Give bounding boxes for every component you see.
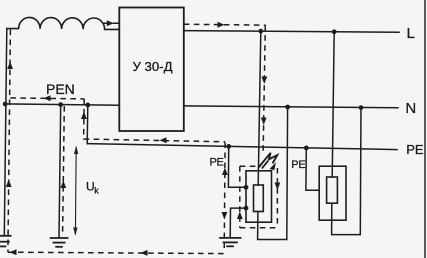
svg-text:L: L [407, 25, 415, 42]
svg-text:PE: PE [291, 159, 305, 171]
wire: PEN conductor from transformer to box [4, 104, 119, 105]
arrow up on left earth conductor (lower) [6, 180, 12, 188]
node: N drop to right appliance [359, 105, 364, 110]
wire (dashed): loop around faulted case bottom [240, 227, 278, 229]
wire (dashed): up from PE corner [83, 99, 86, 140]
resistor R2 (right appliance load) [327, 177, 338, 203]
svg-text:PE: PE [406, 142, 424, 157]
wire: PE bonding stub of right appliance [306, 148, 319, 190]
node: PEN at left earthing conductor [3, 102, 8, 107]
scan page edge artifact [424, 0, 426, 258]
arrow left on PE dashed [160, 137, 167, 143]
node: L drop to middle appliance [258, 29, 263, 34]
wire: local earthing conductor of middle appliance [230, 208, 246, 237]
ground (repeated earth electrode) [51, 238, 68, 247]
node: L drop to right appliance [332, 29, 337, 34]
node: local earth bond on case [244, 206, 249, 211]
wire: L drop to right appliance resistor [332, 32, 334, 177]
appliance case (middle, faulted) [246, 171, 272, 222]
ground (transformer neutral earth electrode) [0, 236, 11, 247]
wire (dashed): loop around faulted case top [240, 165, 257, 167]
wire (dashed): loop around faulted case left [239, 166, 241, 228]
arrow down on L drop dashed (lower) [261, 118, 267, 126]
node: PEN split to PE [85, 103, 90, 108]
svg-text:PEN: PEN [46, 81, 75, 97]
wire (dashed): earth return bottom [8, 252, 227, 253]
resistor R1 (middle appliance load) [254, 185, 264, 212]
wire (dashed): along PE back to split [84, 139, 226, 142]
wire: N return of right appliance [332, 108, 361, 235]
arrow left on bottom earth dashed (left) [10, 249, 17, 255]
arrow up on repeated earth dashed [60, 181, 66, 189]
arrow up on PE stub dashed [222, 168, 228, 176]
device U1 box У 30-Д [119, 8, 184, 132]
wire: N line from box to right edge [184, 106, 398, 108]
wire: L line to right edge [184, 31, 399, 33]
svg-text:k: k [94, 186, 99, 196]
wire (dashed): loop around faulted case right [276, 168, 278, 228]
inductor L1 (transformer secondary winding) [7, 17, 120, 29]
arrow up on left earth conductor (upper) [7, 62, 13, 70]
svg-text:PE: PE [210, 157, 224, 169]
svg-text:N: N [405, 100, 416, 117]
wire (dashed): repeated earthing conductor companion [63, 106, 65, 234]
wire (dashed): earth return up left conductor [8, 30, 10, 253]
wire: N return of middle appliance [258, 107, 288, 240]
wire: transformer earthing conductor (left vertical) [4, 29, 7, 236]
appliance case (right) [319, 166, 346, 220]
arrow left on PEN dashed [44, 95, 51, 101]
wire (dashed): into box at transformer output [103, 22, 119, 24]
dashed fault-current paths [8, 23, 278, 253]
wire: repeated earthing conductor [59, 105, 61, 238]
insulation fault lightning arrow [258, 153, 277, 170]
node: PEN at repeated earth electrode [58, 102, 63, 107]
arrowheads on dashed current paths [6, 20, 281, 256]
arrow right along L dashed [218, 22, 225, 28]
svg-text:У 30-Д: У 30-Д [132, 59, 172, 74]
arrow up on PE corner dashed [81, 112, 87, 120]
wire (dashed): down along L drop to fault [263, 25, 265, 155]
arrow down on case loop right [275, 183, 281, 191]
wire: PE bonding stub of middle appliance [228, 146, 246, 187]
wire: L drop to middle appliance resistor [258, 31, 261, 185]
arrow left on bottom earth dashed (right) [141, 250, 148, 256]
wire: PE split drop [86, 105, 89, 144]
wire (dashed): PE stub down to local ground [223, 143, 226, 253]
wire (dashed): out of box along L [184, 24, 266, 25]
arrow down on PE stub dashed [222, 212, 228, 220]
arrow down on L drop dashed (upper) [261, 77, 267, 85]
ground (middle appliance local earth electrode) [220, 238, 241, 246]
node: N drop to middle appliance [285, 105, 290, 110]
arrow right into box [107, 20, 114, 26]
dimension arrow Uk (touch voltage) [74, 147, 77, 235]
node: PE at middle appliance stub [226, 144, 231, 149]
wire: PE line to right edge [87, 144, 397, 150]
node: PE at right appliance stub [304, 146, 309, 151]
arrow up on case loop left [237, 212, 243, 220]
node: PE bond on case [244, 185, 249, 190]
wire (dashed): along PEN back to source [10, 98, 84, 99]
